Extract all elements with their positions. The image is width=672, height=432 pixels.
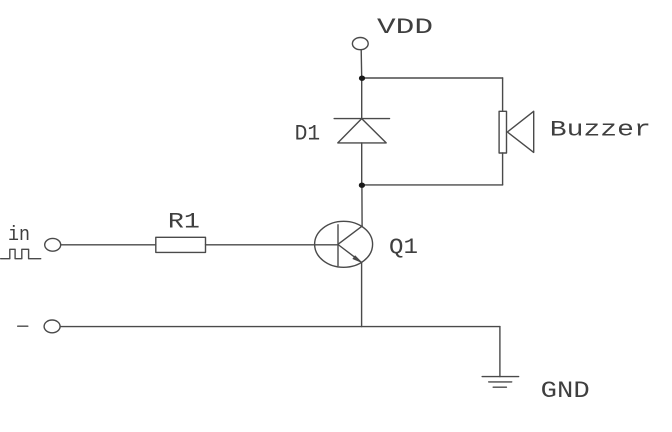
wire node B to right rail (bottom of loop) [362, 184, 503, 186]
transistor Q1 body circle [315, 221, 373, 267]
transistor Q1 emitter arrowhead [353, 256, 362, 263]
diode D1 triangle [338, 119, 386, 143]
wire ground rail down to GND symbol [499, 327, 501, 377]
diode D1 cathode bar [334, 118, 389, 120]
minus terminal circle [44, 320, 60, 333]
svg-text:Buzzer: Buzzer [550, 117, 651, 142]
resistor R1 body [156, 237, 206, 252]
svg-text:R1: R1 [168, 210, 200, 235]
svg-text:Q1: Q1 [389, 235, 418, 260]
ground rail wire [60, 326, 500, 328]
power terminal VDD [352, 38, 368, 50]
junction node A dot [359, 76, 365, 81]
wire resistor R1 to transistor Q1 base [206, 244, 339, 246]
minus terminal dash [18, 325, 28, 327]
wire diode D1 anode to node B [361, 143, 363, 185]
wire input terminal to resistor R1 [61, 244, 156, 246]
wire node A to diode D1 cathode [361, 78, 363, 119]
wire node A to right rail (top) [362, 77, 503, 79]
wire buzzer pin 2 down to node B rail [502, 153, 504, 185]
buzzer LS1 cone [507, 111, 533, 152]
junction node B dot [359, 183, 365, 188]
svg-text:in: in [8, 224, 30, 247]
input square wave symbol [1, 249, 41, 258]
wire VDD terminal to node A [360, 50, 363, 78]
wire transistor Q1 emitter to ground rail [361, 262, 363, 326]
svg-text:D1: D1 [295, 122, 321, 147]
transistor Q1 emitter stroke [338, 245, 362, 263]
input terminal in [45, 238, 61, 251]
wire right rail down to buzzer pin 1 [502, 78, 504, 111]
transistor Q1 base bar [337, 225, 339, 266]
transistor Q1 collector stroke [338, 226, 362, 244]
ground symbol bar 3 [493, 386, 506, 388]
svg-text:GND: GND [541, 378, 590, 404]
ground symbol bar 2 [489, 381, 512, 383]
buzzer LS1 body [499, 111, 506, 153]
wire node B to transistor Q1 collector [361, 185, 363, 226]
ground symbol bar 1 [482, 376, 518, 378]
svg-text:VDD: VDD [377, 15, 433, 40]
